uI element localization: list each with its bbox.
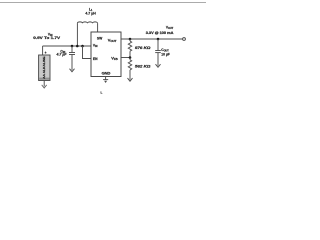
svg-text:4.7 µH: 4.7 µH [85, 12, 96, 16]
wire: inductor left leg down to VIN rail [76, 23, 78, 46]
resistor R1 [128, 39, 131, 58]
svg-text:976 KΩ: 976 KΩ [135, 46, 151, 50]
ground below CIN [70, 69, 75, 72]
capacitor CIN label [55, 50, 67, 57]
capacitor COUT [155, 39, 161, 66]
IC U1 boost converter box [91, 32, 121, 77]
svg-text:SW: SW [97, 37, 103, 41]
wire: GND pin stem [105, 77, 107, 80]
ground below R2 [128, 78, 133, 81]
inductor L1 [77, 22, 97, 23]
svg-text:562 KΩ: 562 KΩ [135, 64, 151, 68]
wire: VFB to divider [121, 57, 130, 59]
ground below battery [42, 85, 47, 88]
node: CIN junction dot [71, 45, 74, 48]
capacitor COUT label [161, 48, 170, 57]
wire: EN tie to VIN rail [83, 46, 92, 59]
top rule line [0, 2, 206, 4]
inductor L1 label [85, 8, 96, 16]
wire: battery negative lead [43, 81, 45, 87]
svg-text:AA ALKALINE: AA ALKALINE [42, 57, 46, 79]
node: EN junction dot [81, 45, 84, 48]
node: R1 top junction dot [129, 38, 132, 41]
wire: inductor right leg down to SW pin [97, 23, 99, 32]
resistor R2 [128, 58, 131, 80]
ground below COUT [156, 64, 161, 67]
VIN source label [33, 32, 60, 39]
svg-text:EN: EN [93, 57, 98, 61]
wire: VIN rail [43, 45, 91, 47]
node: inductor junction dot [76, 45, 79, 48]
VOUT output terminal circle [183, 38, 186, 41]
svg-text:0.9V To 1.7V: 0.9V To 1.7V [33, 35, 60, 39]
ground below IC [103, 80, 108, 83]
node: COUT junction dot [157, 38, 160, 41]
VOUT terminal label [146, 25, 174, 35]
svg-text:L: L [101, 91, 103, 95]
capacitor CIN [69, 46, 75, 70]
svg-text:GND: GND [102, 72, 111, 76]
battery BT1 AA alkaline [39, 55, 50, 81]
svg-text:3.3V @ 100 mA: 3.3V @ 100 mA [146, 31, 174, 35]
svg-text:4.7 µF: 4.7 µF [55, 52, 67, 56]
svg-text:10 µF: 10 µF [161, 53, 170, 57]
wire: VOUT line [121, 38, 183, 40]
wire: battery positive lead [42, 46, 44, 55]
node: feedback junction dot [129, 56, 132, 59]
